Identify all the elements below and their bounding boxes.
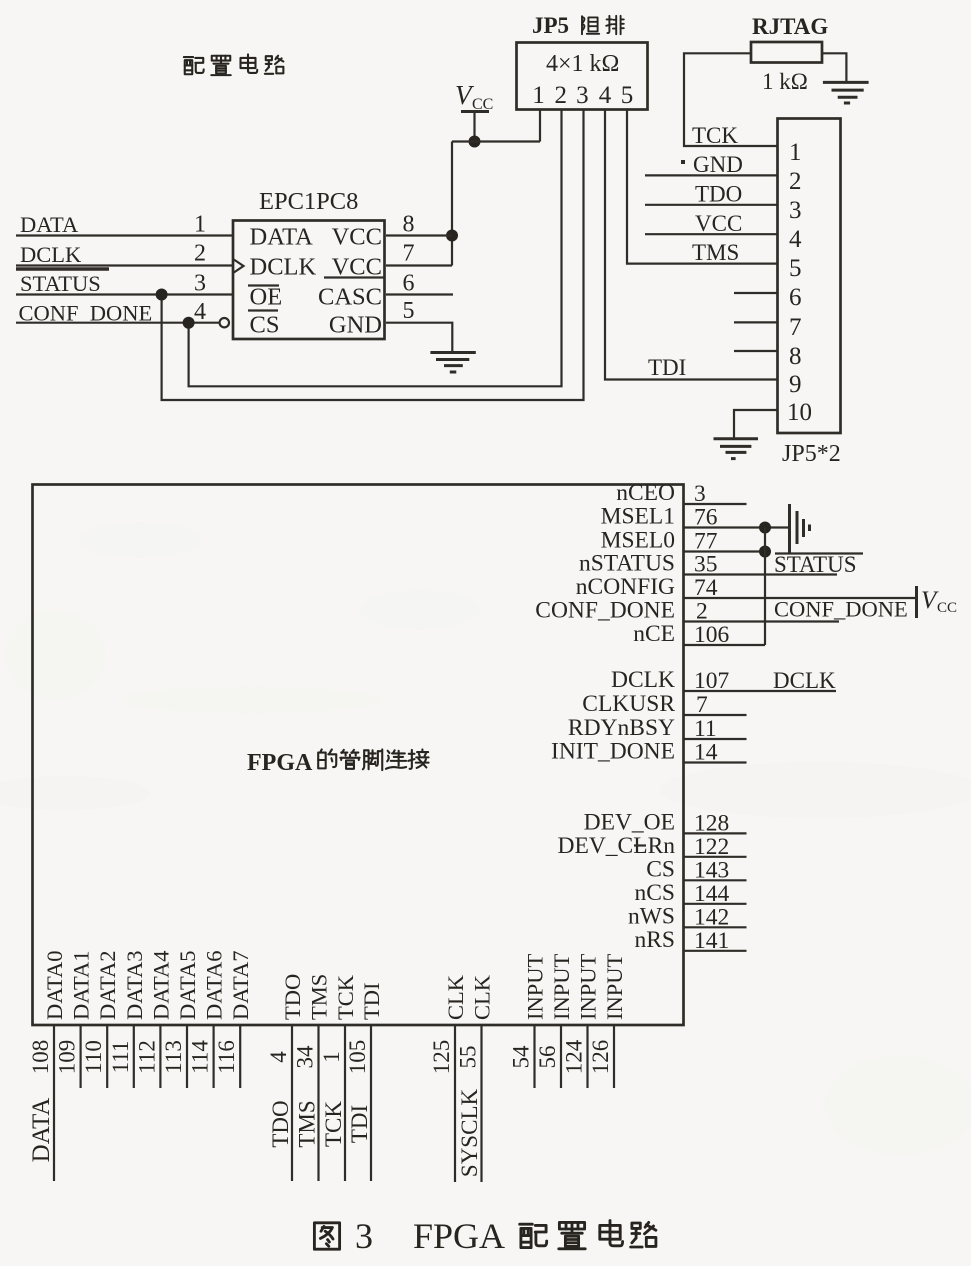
svg-text:1: 1 [532,82,545,109]
svg-text:2: 2 [696,599,708,625]
svg-text:7: 7 [696,692,708,718]
svg-text:111: 111 [108,1041,133,1074]
svg-text:DEV_CLRn: DEV_CLRn [558,833,676,859]
wire header pin2 GND stub [645,174,778,176]
svg-text:DATA7: DATA7 [228,951,253,1020]
svg-text:3: 3 [694,481,706,507]
svg-text:TCK: TCK [321,1101,346,1147]
svg-text:FPGA: FPGA [247,750,313,776]
svg-text:TMS: TMS [295,1100,320,1147]
power VCC top [455,80,493,142]
svg-text:2: 2 [789,168,802,195]
svg-text:CASC: CASC [318,284,382,311]
svg-text:SYSCLK: SYSCLK [457,1089,482,1178]
svg-text:STATUS: STATUS [774,552,857,577]
svg-text:JP5: JP5 [532,13,569,38]
svg-text:DATA: DATA [28,1098,55,1163]
wire above STATUS [775,552,863,554]
bottom pin DATA0 [28,951,67,1181]
svg-text:126: 126 [588,1040,613,1075]
wire JP5 pin4 to TDI [605,110,778,380]
bottom pin INPUT 126 [588,953,627,1088]
svg-text:DCLK: DCLK [20,242,82,267]
svg-text:3: 3 [789,197,802,224]
pin DEV_OE wire [684,832,747,834]
svg-text:DATA: DATA [20,212,79,237]
svg-text:141: 141 [694,928,729,954]
svg-text:CONF_DONE: CONF_DONE [535,598,675,624]
label JP5 阻排 [532,13,624,38]
svg-text:14: 14 [694,740,718,766]
bottom pin CLK 125 [429,974,468,1182]
wire JP5 pin2 to CONF_DONE [189,110,562,387]
svg-text:CS: CS [250,312,280,339]
svg-text:DATA1: DATA1 [69,951,94,1020]
ground header pin10 [714,439,759,459]
wire DCLK [16,264,234,266]
pin label CS with overline [248,311,279,339]
svg-text:DATA6: DATA6 [202,951,227,1020]
svg-text:CONF_DONE: CONF_DONE [774,597,908,622]
chip FPGA box [33,485,684,1026]
svg-text:CC: CC [937,600,957,616]
wire MSEL to nCE ground [764,528,766,646]
pin DEV_CLRn wire [684,856,747,858]
svg-text:35: 35 [694,552,718,578]
svg-text:CLK: CLK [443,974,468,1020]
inverter bubble CS [220,318,229,327]
svg-text:nCS: nCS [635,880,676,906]
svg-text:4: 4 [194,299,206,325]
bottom pin TDO [266,974,305,1181]
svg-text:TCK: TCK [333,974,358,1020]
bottom pin DATA2 [81,951,120,1088]
svg-text:105: 105 [345,1040,370,1075]
svg-text:109: 109 [55,1040,80,1075]
svg-text:DATA0: DATA0 [42,951,67,1020]
svg-text:TMS: TMS [307,974,332,1020]
wire STATUS [16,293,233,295]
svg-text:1 kΩ: 1 kΩ [762,69,808,94]
svg-text:1: 1 [194,212,206,238]
wire header pin10 to ground [734,410,778,439]
chip EPC1PC8 box [233,221,385,340]
bottom pin DATA3 [108,951,147,1088]
pin CS wire [684,879,747,881]
svg-text:MSEL1: MSEL1 [601,504,675,530]
svg-text:nCE: nCE [633,621,675,647]
svg-text:DEV_OE: DEV_OE [584,809,675,835]
pin RDYnBSY wire [684,738,747,740]
svg-text:TDI: TDI [359,983,384,1021]
svg-text:7: 7 [403,241,415,267]
svg-text:DCLK: DCLK [250,254,317,281]
svg-text:CLK: CLK [470,974,495,1020]
pin CLKUSR wire [684,714,747,716]
svg-text:TCK: TCK [692,123,738,148]
svg-text:144: 144 [694,881,730,907]
svg-text:11: 11 [694,716,717,742]
pin nCS wire [684,903,747,905]
ground RJTAG [823,82,869,103]
svg-text:nCEO: nCEO [616,480,675,506]
wire RJTAG right to ground [822,53,846,82]
pin nWS wire [684,926,747,928]
pin nSTATUS wire [684,573,838,575]
speck dot [681,160,685,164]
svg-text:TDO: TDO [695,181,742,206]
svg-text:4: 4 [789,226,802,253]
bottom pin TCK [319,974,358,1181]
svg-text:113: 113 [161,1040,186,1074]
svg-text:FPGA: FPGA [413,1216,505,1256]
svg-text:7: 7 [789,314,802,341]
wire EPC pin7 VCC [386,264,452,266]
svg-text:TDO: TDO [268,1100,293,1147]
svg-text:OE: OE [250,284,283,311]
scan smudges [0,522,971,1155]
junction dot MSEL0 [759,546,771,558]
pin MSEL1 wire [684,526,789,528]
bottom pin INPUT 56 [535,953,574,1088]
svg-text:DATA4: DATA4 [148,951,173,1020]
svg-text:2: 2 [194,241,206,267]
header pin numbers 1-10 [787,139,812,426]
resistor array JP5 box [517,43,648,110]
svg-text:VCC: VCC [332,224,382,251]
bottom pin INPUT 54 [509,953,548,1088]
wire header pin8 stub [734,350,778,352]
svg-text:CLKUSR: CLKUSR [582,691,675,717]
wire header pin7 stub [734,321,778,323]
svg-text:74: 74 [694,575,718,601]
svg-text:124: 124 [562,1039,587,1074]
svg-text:4×1 kΩ: 4×1 kΩ [546,51,619,77]
wire JP5 pin3 to STATUS [162,110,584,401]
svg-text:STATUS: STATUS [20,271,101,296]
wire JP5 pin1 [539,110,541,142]
svg-text:INPUT: INPUT [523,953,548,1020]
svg-text:34: 34 [293,1045,318,1069]
wire VCC down to EPC pins [451,142,453,266]
pin label DEV_CLRn with overline [558,833,676,859]
svg-text:9: 9 [789,371,802,398]
power VCC tap right [917,586,958,618]
svg-text:TDO: TDO [280,974,305,1020]
clock input triangle DCLK [234,260,244,273]
svg-text:JP5*2: JP5*2 [782,441,841,467]
bottom pin TDI [345,983,384,1182]
wire DATA [16,234,233,236]
svg-text:GND: GND [329,312,382,339]
wire header pin3 TDO stub [645,204,778,206]
svg-text:EPC1PC8: EPC1PC8 [259,188,358,215]
svg-text:RDYnBSY: RDYnBSY [568,715,675,741]
svg-text:TDI: TDI [648,355,686,380]
svg-text:3: 3 [576,82,589,109]
svg-text:TMS: TMS [692,240,739,265]
svg-text:142: 142 [694,904,729,930]
wire JP5 pin5 to TMS [627,110,778,264]
wire EPC pin8 VCC [386,234,452,236]
wire VCC rail to JP5 pin1 [452,140,540,142]
label FPGA的管脚连接 [247,749,429,776]
svg-text:4: 4 [266,1051,291,1063]
wire DCLK underline mark [16,267,109,270]
svg-text:INPUT: INPUT [576,953,601,1020]
svg-text:6: 6 [403,270,415,296]
svg-text:6: 6 [789,284,802,311]
svg-text:76: 76 [694,505,718,531]
svg-text:VCC: VCC [695,211,742,236]
svg-text:DATA3: DATA3 [122,951,147,1020]
pin CONF_DONE wire [684,620,840,622]
wire RJTAG left to TCK [684,53,778,146]
ground EPC pin5 [430,353,475,373]
svg-text:CS: CS [646,856,675,882]
svg-text:nWS: nWS [628,903,675,929]
caption 图3 FPGA 配置电路 [314,1216,656,1256]
junction dot VCC rail [469,136,481,148]
svg-text:4: 4 [599,82,612,109]
svg-text:DCLK: DCLK [773,668,836,693]
wire header pin6 stub [734,292,778,294]
wire CONF_DONE [16,322,220,324]
svg-text:143: 143 [694,857,729,883]
svg-text:nSTATUS: nSTATUS [579,551,675,577]
label 配置电路 (configuration circuit) [184,54,283,75]
svg-text:RJTAG: RJTAG [752,14,828,39]
bottom pin DATA7 [214,951,253,1088]
svg-text:56: 56 [535,1046,560,1069]
svg-text:INIT_DONE: INIT_DONE [551,739,675,765]
resistor RJTAG body [751,42,822,63]
pin label OE with overline [248,284,282,311]
svg-text:5: 5 [403,298,415,324]
bottom pin CLK 55 [456,974,495,1182]
bottom pin DATA5 [161,951,200,1088]
pin DCLK wire [684,690,837,692]
svg-text:55: 55 [456,1046,481,1069]
svg-text:INPUT: INPUT [549,953,574,1020]
bottom pin DATA1 [55,951,94,1088]
svg-text:125: 125 [429,1040,454,1075]
pin label VCC pin7 underlined [324,254,384,281]
bottom pin TMS [293,974,332,1181]
svg-text:8: 8 [789,343,802,370]
pin nCEO wire [684,503,747,505]
svg-text:DATA5: DATA5 [175,951,200,1020]
JP5 pin numbers 1 2 3 4 5 [532,82,633,109]
pin nRS wire [684,950,747,952]
svg-text:DATA: DATA [250,224,314,251]
svg-text:106: 106 [694,622,730,648]
svg-text:TDI: TDI [347,1105,372,1143]
pin INIT_DONE wire [684,761,747,763]
svg-text:nCONFIG: nCONFIG [576,574,675,600]
wire EPC pin6 CASC stub [386,293,453,295]
svg-text:116: 116 [214,1040,239,1074]
svg-text:1: 1 [789,139,802,166]
pin nCONFIG wire [684,597,917,599]
svg-text:3: 3 [355,1216,373,1256]
pin nCE wire [684,644,766,646]
svg-text:5: 5 [621,82,634,109]
svg-text:5: 5 [789,255,802,282]
junction dot STATUS [156,289,168,301]
bottom pin DATA6 [188,951,227,1088]
pin MSEL0 wire [684,550,766,552]
svg-text:INPUT: INPUT [602,953,627,1020]
svg-text:108: 108 [28,1040,53,1075]
svg-text:1: 1 [319,1051,344,1063]
connector JP5*2 header box [778,119,841,434]
svg-text:2: 2 [555,82,568,109]
svg-text:107: 107 [694,668,730,694]
svg-text:DATA2: DATA2 [95,951,120,1020]
svg-text:114: 114 [188,1040,213,1074]
junction dot CONF_DONE [183,317,195,329]
svg-text:128: 128 [694,810,729,836]
svg-text:54: 54 [509,1045,534,1069]
svg-text:GND: GND [693,152,743,177]
svg-text:122: 122 [694,834,729,860]
svg-text:DCLK: DCLK [611,667,675,693]
svg-text:8: 8 [403,212,415,238]
ground right rotated [790,504,810,554]
bottom pin DATA4 [134,951,173,1088]
svg-text:10: 10 [787,399,812,426]
svg-text:110: 110 [81,1040,106,1074]
svg-text:nRS: nRS [635,927,676,953]
wire header pin4 VCC stub [645,233,778,235]
junction dot MSEL1 [759,522,771,534]
wire EPC pin5 GND [386,323,452,353]
svg-text:3: 3 [194,270,206,296]
svg-text:112: 112 [134,1040,159,1074]
junction dot EPC pin8 [446,230,458,242]
bottom pin INPUT 124 [562,953,601,1088]
